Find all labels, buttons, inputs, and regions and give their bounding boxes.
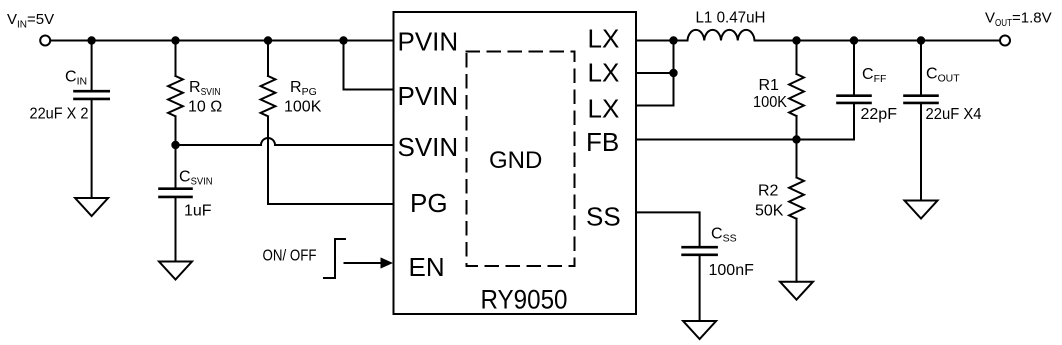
svg-text:100K: 100K xyxy=(284,99,322,116)
wire LX tie vertical xyxy=(673,41,675,106)
svg-text:22uF X 2: 22uF X 2 xyxy=(30,106,89,123)
svg-text:PVIN: PVIN xyxy=(398,81,459,111)
ground below COUT xyxy=(905,201,938,219)
node junction CFF top xyxy=(850,36,858,44)
svg-text:100nF: 100nF xyxy=(709,262,755,279)
capacitor CSVIN xyxy=(160,145,192,262)
arrowhead into EN xyxy=(381,257,394,268)
svg-text:GND: GND xyxy=(489,147,542,174)
node junction COUT top xyxy=(917,36,925,44)
wire SS line xyxy=(636,212,700,246)
GND internal dashed box xyxy=(467,52,575,267)
node junction LX2 xyxy=(669,69,677,77)
node junction CIN top xyxy=(87,36,95,44)
svg-text:VOUT=1.8V: VOUT=1.8V xyxy=(985,10,1052,30)
node junction LX1 xyxy=(669,36,677,44)
svg-text:LX: LX xyxy=(588,94,620,124)
svg-text:100K: 100K xyxy=(753,94,787,111)
svg-text:VIN=5V: VIN=5V xyxy=(7,11,54,31)
capacitor CFF xyxy=(838,41,871,103)
svg-text:COUT: COUT xyxy=(926,66,960,85)
svg-text:ON/ OFF: ON/ OFF xyxy=(263,248,317,265)
ON/OFF step symbol xyxy=(324,239,345,278)
svg-text:PVIN: PVIN xyxy=(398,27,459,57)
svg-text:22pF: 22pF xyxy=(861,106,898,123)
svg-text:PG: PG xyxy=(410,188,448,218)
node junction R1 top xyxy=(792,36,800,44)
svg-text:SS: SS xyxy=(586,202,621,232)
svg-text:CSS: CSS xyxy=(711,226,737,245)
svg-text:CIN: CIN xyxy=(65,69,87,88)
svg-text:10 Ω: 10 Ω xyxy=(188,99,222,116)
wire PVIN2 branch xyxy=(344,41,394,90)
node VIN input terminal xyxy=(40,36,50,46)
svg-text:22uF X4: 22uF X4 xyxy=(926,106,982,123)
node junction FB R1 R2 xyxy=(792,135,800,143)
svg-text:CFF: CFF xyxy=(862,66,886,85)
svg-text:RSVIN: RSVIN xyxy=(189,79,221,98)
ground below CIN xyxy=(75,198,108,216)
node junction PVIN2 branch xyxy=(339,36,347,44)
capacitor CIN xyxy=(75,41,109,199)
svg-text:FB: FB xyxy=(586,127,619,157)
svg-text:L1 0.47uH: L1 0.47uH xyxy=(696,10,766,27)
node VOUT output terminal xyxy=(1000,36,1010,46)
svg-text:1uF: 1uF xyxy=(184,203,212,220)
wire LX3 stub xyxy=(636,105,674,107)
wire FB line xyxy=(636,104,854,140)
wire EN arrow line xyxy=(345,262,382,264)
svg-text:LX: LX xyxy=(588,24,620,54)
wire LX2 stub xyxy=(636,72,674,74)
svg-text:EN: EN xyxy=(409,252,445,282)
svg-text:RPG: RPG xyxy=(290,79,317,98)
inductor L1 xyxy=(674,30,1000,41)
wire SVIN line with hop over RPG xyxy=(176,138,394,145)
capacitor CSS xyxy=(683,247,717,321)
wire PG line xyxy=(268,203,394,205)
node junction RPG top xyxy=(264,36,272,44)
resistor R2 xyxy=(789,140,804,282)
svg-text:50K: 50K xyxy=(755,203,784,220)
svg-text:RY9050: RY9050 xyxy=(481,285,568,315)
node junction RSVIN top xyxy=(171,36,179,44)
resistor R1 xyxy=(789,41,804,140)
ground below CSS xyxy=(683,321,716,339)
wire LX1 stub xyxy=(636,40,674,42)
svg-text:R1: R1 xyxy=(759,77,780,94)
svg-text:LX: LX xyxy=(588,58,620,88)
ground below R2 xyxy=(780,282,813,300)
svg-text:R2: R2 xyxy=(758,183,779,200)
svg-text:SVIN: SVIN xyxy=(398,132,459,162)
op-amp U1 RY9050 IC box xyxy=(394,12,637,314)
wire top input rail xyxy=(51,40,394,42)
svg-text:CSVIN: CSVIN xyxy=(179,169,213,188)
node junction SVIN xyxy=(171,141,179,149)
capacitor COUT xyxy=(905,41,938,201)
resistor RPG xyxy=(261,41,276,205)
resistor RSVIN xyxy=(168,41,183,146)
ground below CSVIN xyxy=(159,262,192,280)
